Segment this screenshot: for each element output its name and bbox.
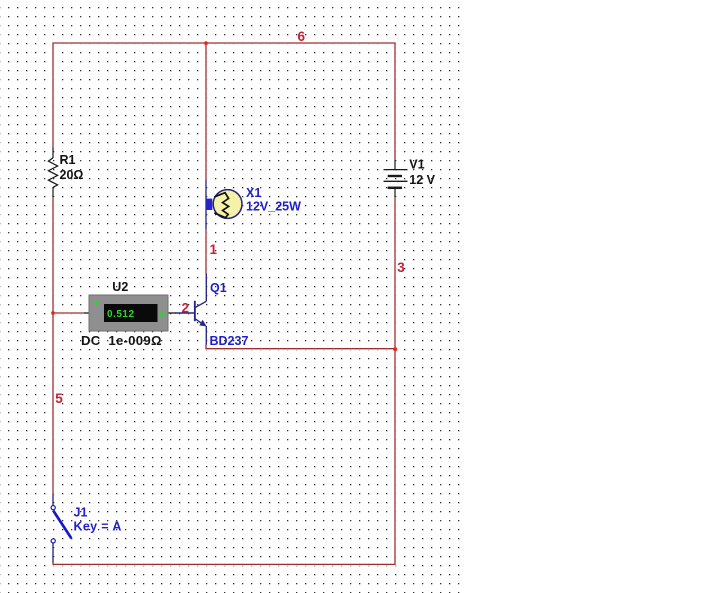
resistor R1 <box>48 148 83 198</box>
svg-text:12 V: 12 V <box>409 173 435 187</box>
wire net 6 lamp branch <box>205 43 207 180</box>
svg-text:12V_25W: 12V_25W <box>246 200 301 214</box>
wire emitter to net 3 <box>206 345 395 349</box>
wire net 3 right lower run + bottom run <box>52 197 395 565</box>
svg-text:0.512: 0.512 <box>107 309 135 320</box>
svg-text:BD237: BD237 <box>210 334 249 348</box>
svg-text:V1: V1 <box>409 158 424 172</box>
wire net 1 lamp to collector <box>205 229 207 274</box>
svg-text:6: 6 <box>298 29 306 44</box>
svg-text:Key = A: Key = A <box>74 520 122 534</box>
battery V1 <box>384 158 436 197</box>
svg-text:5: 5 <box>55 391 63 406</box>
wire underlays (erase grid dots beneath wires) <box>52 43 395 565</box>
svg-text:DC 1e-009Ω: DC 1e-009Ω <box>81 333 162 348</box>
svg-text:A: A <box>159 309 166 320</box>
svg-text:X1: X1 <box>246 186 261 200</box>
svg-text:20Ω: 20Ω <box>60 168 84 182</box>
junction top (206,43) <box>204 41 208 45</box>
svg-text:2: 2 <box>182 301 190 316</box>
svg-text:3: 3 <box>397 260 405 275</box>
junction left (53,313) <box>51 311 55 315</box>
transistor Q1 <box>175 274 248 348</box>
junction right (395,349) <box>393 347 397 351</box>
lamp X1 <box>206 180 302 229</box>
svg-text:J1: J1 <box>74 506 88 520</box>
grid workspace area <box>0 0 464 593</box>
svg-text:Q1: Q1 <box>210 281 227 295</box>
wire net 6 top run: left wire upper + top wire + right wire upper <box>53 43 395 160</box>
switch J1 <box>51 494 122 563</box>
svg-text:U2: U2 <box>112 280 128 294</box>
ammeter U2 <box>81 280 176 348</box>
svg-text:1: 1 <box>210 242 218 257</box>
svg-text:R1: R1 <box>60 153 76 167</box>
wire net 5 left lower run <box>52 197 54 494</box>
wire net 2 junction to meter <box>53 312 84 314</box>
